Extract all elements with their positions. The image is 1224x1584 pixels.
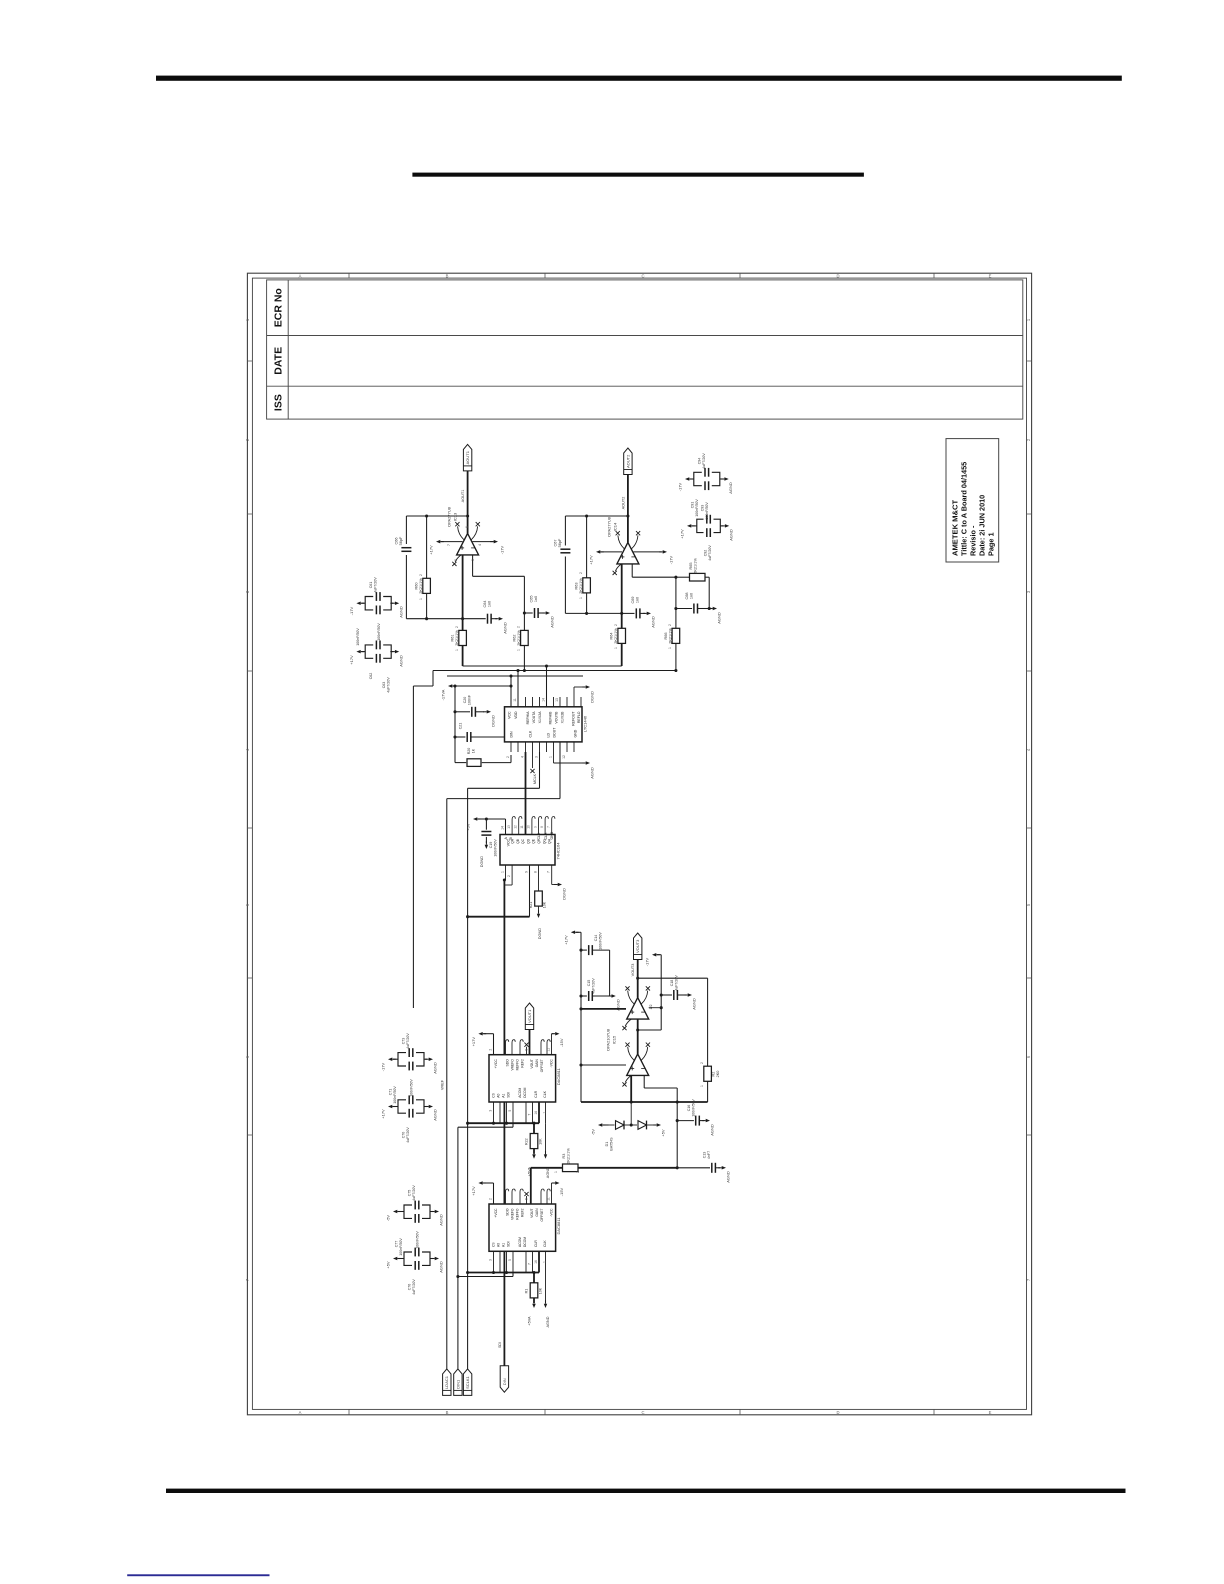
svg-text:2: 2	[454, 559, 458, 561]
svg-text:DCOM: DCOM	[523, 1087, 527, 1097]
power +5VA arrow IC18	[532, 1154, 536, 1158]
svg-text:AGND: AGND	[728, 482, 733, 494]
svg-text:10: 10	[527, 825, 531, 829]
svg-text:-17V: -17V	[349, 606, 354, 615]
svg-text:2K21/1%: 2K21/1%	[567, 1148, 571, 1164]
svg-text:REFFO: REFFO	[516, 1059, 520, 1071]
svg-text:1: 1	[548, 756, 552, 758]
svg-text:GND: GND	[574, 729, 578, 737]
svg-text:SDI: SDI	[498, 1342, 502, 1348]
power +17V arrow IC19	[478, 1181, 482, 1185]
wire DAC data rail IC18	[458, 1126, 513, 1128]
svg-text:VCC: VCC	[508, 711, 512, 719]
svg-text:OPA2107U8: OPA2107U8	[606, 1028, 611, 1051]
svg-text:9: 9	[533, 826, 537, 828]
ground AGND arrow C74 group	[430, 1211, 433, 1213]
power -17V pin IC13	[473, 541, 494, 543]
svg-text:2: 2	[419, 574, 423, 576]
svg-text:R64: R64	[610, 633, 614, 640]
wire feedback bottom rail IC14	[565, 612, 621, 614]
svg-text:VREF: VREF	[441, 1079, 445, 1090]
svg-text:AGND: AGND	[399, 655, 404, 667]
power +17V arrow IC15	[571, 931, 575, 935]
svg-text:C: C	[641, 274, 644, 279]
net flag VOUT3	[634, 933, 642, 960]
svg-text:CS: CS	[492, 1092, 496, 1097]
ground AGND arrow IC19	[545, 1273, 547, 1304]
wire bus SCLK vertical	[467, 788, 469, 1369]
svg-text:100nF/50V: 100nF/50V	[410, 1079, 414, 1097]
resistor R1 10K	[533, 1273, 535, 1283]
svg-text:AGND: AGND	[729, 529, 734, 541]
svg-text:ACOM: ACOM	[518, 1088, 522, 1098]
svg-text:CLR: CLR	[534, 1090, 538, 1097]
wire sync horizontal	[447, 798, 560, 800]
wire CLR stub IC18	[538, 1102, 540, 1123]
svg-text:ACOM: ACOM	[518, 1237, 522, 1247]
svg-text:D1: D1	[605, 1142, 609, 1147]
svg-text:E: E	[989, 274, 992, 279]
wire feedback left leg	[405, 516, 407, 544]
svg-text:B: B	[446, 1410, 449, 1415]
svg-text:2: 2	[507, 875, 511, 877]
wire non-inverting input IC13	[472, 555, 474, 576]
revision table frame	[267, 280, 1023, 419]
shift register IC box IC16	[500, 835, 555, 866]
power +17V pin IC13	[441, 541, 463, 543]
svg-text:4uF7/20V: 4uF7/20V	[675, 975, 679, 991]
DAC NC hooks IC18	[506, 1040, 509, 1055]
svg-text:R65: R65	[689, 563, 693, 570]
wire IC15A left supply	[581, 1008, 626, 1010]
capacitors C62/C63 group	[365, 645, 391, 658]
svg-text:14: 14	[500, 826, 504, 830]
svg-text:GAIN: GAIN	[535, 1208, 539, 1217]
power +17V arrow C70 group	[388, 1105, 392, 1108]
svg-text:+5VA: +5VA	[528, 1316, 532, 1326]
wire -17V rail IC15	[660, 955, 662, 1030]
net flag LDAC1	[443, 1369, 451, 1396]
ground AGND arrow C91 group	[720, 478, 723, 480]
wire AOUT1 to op-amp output	[467, 471, 469, 534]
svg-text:1/2: 1/2	[649, 1005, 653, 1010]
op-amp IC13	[457, 533, 479, 555]
resistor R61 input	[462, 619, 464, 631]
title underline	[412, 173, 864, 177]
svg-text:1n0: 1n0	[636, 597, 640, 603]
wire bus left drop	[432, 671, 434, 687]
capacitor C17 clamp	[676, 1102, 678, 1121]
svg-text:A: A	[299, 1410, 302, 1415]
page bottom rule	[166, 1489, 1126, 1493]
svg-text:C69: C69	[631, 597, 635, 604]
wire feedback to R2	[638, 977, 708, 979]
svg-text:VOUT3: VOUT3	[635, 939, 640, 953]
wire VOUT1 to VOUT pin	[529, 1030, 531, 1055]
svg-text:1: 1	[419, 598, 423, 600]
svg-text:2: 2	[455, 626, 459, 628]
svg-text:CLK: CLK	[543, 1090, 547, 1097]
svg-text:DAC8811: DAC8811	[556, 1067, 561, 1085]
svg-text:DAC8811: DAC8811	[556, 1217, 561, 1235]
svg-text:CLR: CLR	[534, 1240, 538, 1247]
svg-text:2K21/1%: 2K21/1%	[669, 628, 673, 644]
power +17V arrow C62 group	[356, 650, 360, 654]
svg-text:C14: C14	[594, 935, 598, 942]
ground AGND arrow C70 group	[424, 1106, 427, 1108]
svg-text:VOUT3: VOUT3	[631, 964, 635, 977]
capacitor C21 ref	[455, 736, 465, 738]
wire DAC data rail IC19	[458, 1276, 513, 1278]
svg-text:6: 6	[465, 526, 469, 528]
svg-text:X1/X2B: X1/X2B	[561, 711, 565, 724]
svg-text:4uF7/20V: 4uF7/20V	[412, 1279, 416, 1295]
svg-text:74HC164: 74HC164	[556, 842, 561, 860]
svg-text:AGND: AGND	[651, 616, 656, 628]
svg-text:C93: C93	[701, 505, 705, 512]
svg-text:+5V: +5V	[386, 1261, 391, 1269]
svg-text:REFHIB: REFHIB	[549, 711, 553, 725]
capacitor C66 feedback	[401, 548, 411, 552]
svg-text:REF2: REF2	[521, 1208, 525, 1217]
svg-text:ECR No: ECR No	[273, 288, 285, 327]
svg-text:LD: LD	[547, 733, 551, 738]
ground AGND arrow C92 group	[720, 525, 723, 527]
wire clamp node riser	[630, 1102, 632, 1125]
svg-text:AGND: AGND	[439, 1261, 444, 1273]
wire DAC control rail IC19	[468, 1272, 539, 1274]
svg-text:4uF7/20V: 4uF7/20V	[406, 1127, 410, 1143]
svg-text:+VCC: +VCC	[494, 1208, 498, 1218]
svg-text:1: 1	[579, 597, 583, 599]
capacitors C76/C77 group	[404, 1252, 430, 1265]
svg-text:AGND: AGND	[550, 616, 555, 628]
svg-text:2K21/1%: 2K21/1%	[455, 630, 459, 646]
svg-text:9: 9	[524, 1049, 528, 1051]
svg-text:C61: C61	[369, 582, 373, 589]
net flag SDI pointed	[500, 1366, 508, 1393]
diode D1 second half	[638, 1121, 647, 1130]
svg-text:11: 11	[546, 1197, 550, 1201]
svg-text:2: 2	[700, 1062, 704, 1064]
svg-text:VOUTA: VOUTA	[532, 711, 536, 723]
svg-text:10K: 10K	[539, 1138, 543, 1145]
svg-text:DGND: DGND	[491, 715, 496, 727]
power -15V arrow IC18	[551, 1034, 553, 1055]
svg-text:AMETEK M&CT: AMETEK M&CT	[951, 500, 960, 556]
power +5V arrow clamp	[647, 1124, 655, 1126]
svg-text:3: 3	[471, 559, 475, 561]
svg-text:+17V: +17V	[471, 1186, 476, 1196]
wire non-inverting input IC14	[631, 564, 633, 577]
svg-text:13: 13	[555, 698, 559, 702]
svg-text:C71: C71	[389, 1089, 393, 1096]
wire bus DIN vertical	[457, 1127, 459, 1369]
svg-text:C77: C77	[395, 1241, 399, 1248]
wire feedback top rail IC14	[565, 515, 628, 517]
svg-text:C: C	[641, 1410, 644, 1415]
svg-text:+17V: +17V	[589, 555, 594, 565]
svg-text:C68: C68	[685, 593, 689, 600]
svg-text:VOUT: VOUT	[530, 1209, 534, 1218]
power +5V arrow shift register	[473, 817, 477, 821]
svg-text:MCLK: MCLK	[533, 773, 537, 784]
svg-text:2: 2	[576, 1171, 580, 1173]
svg-text:3: 3	[488, 1259, 492, 1261]
power -5V arrow C74 group	[393, 1210, 397, 1213]
net flag VOUT1	[525, 1003, 533, 1030]
wire branch to -17V rail	[638, 1029, 662, 1031]
capacitor C15 supply	[581, 995, 587, 997]
svg-text:1: 1	[700, 1085, 704, 1087]
svg-text:C64: C64	[483, 601, 487, 608]
svg-text:2K21/1%: 2K21/1%	[579, 578, 583, 594]
svg-text:-17V: -17V	[381, 1062, 386, 1071]
svg-text:+17V: +17V	[381, 1109, 386, 1119]
svg-text:-15V: -15V	[559, 1038, 564, 1047]
svg-text:2: 2	[668, 624, 672, 626]
svg-text:DIN1: DIN1	[455, 1379, 460, 1389]
ground AGND arrow C76 group	[430, 1258, 433, 1260]
svg-text:-5V: -5V	[591, 1129, 596, 1136]
svg-text:C19: C19	[489, 842, 493, 849]
ground AGND arrow C72 group	[424, 1058, 427, 1060]
wire VOUT2 to resistor R3	[531, 1167, 563, 1169]
svg-text:C70: C70	[402, 1132, 406, 1139]
wire feedback top rail IC13	[406, 515, 467, 517]
svg-text:CLK: CLK	[529, 730, 533, 737]
capacitor C14 supply	[581, 949, 587, 951]
DAC bottom pin stubs IC19	[493, 1251, 495, 1272]
svg-text:R2: R2	[712, 1072, 716, 1077]
svg-text:R1: R1	[525, 1289, 529, 1294]
wire AOUT2 to op-amp output	[627, 475, 629, 543]
svg-text:1K: 1K	[472, 748, 476, 753]
svg-text:AGND: AGND	[439, 1214, 444, 1226]
svg-text:2: 2	[488, 1049, 492, 1051]
wire feedback left leg IC14	[564, 516, 566, 546]
svg-text:AOUT1: AOUT1	[465, 450, 470, 464]
wire IC15B inverting input	[630, 1075, 632, 1102]
svg-text:C16: C16	[687, 1105, 691, 1112]
page top rule	[156, 76, 1122, 81]
svg-text:CS: CS	[492, 1242, 496, 1247]
svg-text:REF2: REF2	[521, 1059, 525, 1068]
svg-text:+17V: +17V	[429, 545, 434, 555]
wire bus VOUTB	[447, 675, 583, 677]
svg-text:B: B	[446, 274, 449, 279]
svg-text:11: 11	[513, 698, 517, 702]
svg-text:AOUT2: AOUT2	[625, 454, 630, 468]
wire VOUT3 to output	[637, 960, 639, 998]
svg-text:7: 7	[527, 1263, 531, 1265]
svg-text:DGND: DGND	[538, 928, 542, 939]
svg-text:A1: A1	[502, 1243, 506, 1247]
wire ref LD down	[559, 742, 561, 799]
svg-text:DOUT: DOUT	[553, 727, 557, 738]
svg-text:4uF7/20V: 4uF7/20V	[406, 1033, 410, 1049]
svg-text:2K0: 2K0	[716, 1071, 720, 1078]
op-amp IC15 B	[627, 1054, 649, 1076]
op-amp IC15 A	[627, 998, 649, 1020]
svg-text:A: A	[299, 274, 302, 279]
power -17V arrow C72 group	[388, 1058, 392, 1062]
svg-text:IC14: IC14	[613, 522, 618, 531]
svg-text:4nF7: 4nF7	[707, 1151, 711, 1159]
wire bus B vertical	[503, 880, 505, 1380]
wire inverting input IC14	[621, 564, 623, 614]
svg-text:4uF7/20V: 4uF7/20V	[708, 545, 712, 561]
reference IC bottom pin stubs	[510, 742, 512, 752]
svg-text:-VCC: -VCC	[550, 1208, 554, 1217]
svg-text:1: 1	[614, 647, 618, 649]
svg-text:C92: C92	[704, 550, 708, 557]
svg-text:16: 16	[534, 1111, 538, 1115]
svg-text:A0: A0	[497, 1243, 501, 1247]
svg-text:C18: C18	[670, 980, 674, 987]
power -17VA arrow	[448, 684, 452, 688]
svg-text:DIN: DIN	[502, 1378, 507, 1385]
svg-text:4uF7/20V: 4uF7/20V	[374, 577, 378, 593]
svg-text:AOUT2: AOUT2	[621, 497, 625, 510]
resistor R22 10K	[533, 1123, 535, 1133]
svg-text:DGND: DGND	[480, 856, 484, 867]
svg-text:C15: C15	[587, 980, 591, 987]
svg-text:2: 2	[488, 1198, 492, 1200]
wire bus drops to reference IC	[517, 671, 519, 707]
svg-text:AGND: AGND	[710, 1124, 715, 1136]
svg-text:7: 7	[527, 1114, 531, 1116]
wire IC15B left supply	[581, 1064, 626, 1066]
svg-text:C20: C20	[463, 697, 467, 704]
wire +5V to VCC pin	[486, 818, 505, 820]
svg-text:100nF: 100nF	[468, 694, 472, 705]
svg-text:AGND: AGND	[726, 1171, 731, 1183]
DAC IC box IC19	[489, 1204, 556, 1251]
svg-text:+VCC: +VCC	[494, 1059, 498, 1069]
svg-text:1: 1	[455, 649, 459, 651]
svg-text:OFFSET: OFFSET	[540, 1059, 544, 1072]
svg-text:+17V: +17V	[680, 529, 685, 539]
svg-text:-17VA: -17VA	[441, 689, 446, 700]
svg-text:100nF/50V: 100nF/50V	[494, 839, 498, 857]
svg-text:R22: R22	[525, 1138, 529, 1145]
svg-text:7: 7	[547, 871, 551, 873]
svg-text:Page 1: Page 1	[987, 532, 996, 556]
reference IC NC pin	[532, 752, 534, 768]
wire CLK stub IC18	[545, 1102, 547, 1123]
net flag AOUT2	[624, 448, 632, 475]
wire bus AGND rail	[433, 670, 676, 672]
ground AGND arrow C62 group	[390, 651, 393, 653]
ground AGND arrow IC18	[545, 1123, 547, 1154]
svg-text:AGND: AGND	[433, 1062, 438, 1074]
svg-text:-17V: -17V	[645, 957, 650, 966]
svg-text:-VCC: -VCC	[550, 1059, 554, 1068]
svg-text:C94: C94	[698, 458, 702, 465]
svg-text:SDO: SDO	[506, 1208, 510, 1216]
svg-text:100nF/50V: 100nF/50V	[399, 1238, 403, 1256]
svg-text:GAIN: GAIN	[535, 1059, 539, 1068]
svg-text:100nF/50V: 100nF/50V	[416, 1231, 420, 1249]
svg-text:1: 1	[500, 871, 504, 873]
wire CLR stub IC19	[538, 1251, 540, 1272]
wire IC15B non-inverting input	[643, 1075, 645, 1088]
svg-text:13: 13	[507, 825, 511, 829]
svg-text:56pF: 56pF	[399, 536, 403, 545]
svg-text:+17V: +17V	[349, 655, 354, 665]
svg-text:C21: C21	[459, 723, 463, 730]
svg-text:C67: C67	[554, 540, 558, 547]
svg-text:-5V: -5V	[386, 1215, 391, 1222]
svg-text:CLR: CLR	[544, 832, 548, 839]
svg-text:QC: QC	[521, 838, 525, 844]
wire +17V rail IC15	[580, 932, 582, 1065]
resistor R21 on CLK	[538, 865, 540, 891]
svg-text:7: 7	[447, 544, 451, 546]
capacitor C19 shift register	[485, 819, 487, 830]
svg-text:4uF7/20V: 4uF7/20V	[387, 677, 391, 693]
svg-text:3: 3	[534, 756, 538, 758]
svg-text:+5V: +5V	[466, 823, 471, 831]
power +5V arrow C76 group	[393, 1257, 397, 1260]
svg-text:2: 2	[614, 624, 618, 626]
reference IC top pin stubs	[510, 697, 512, 707]
svg-text:R63: R63	[575, 583, 579, 590]
net flag DIN1	[454, 1369, 462, 1396]
svg-text:A1: A1	[502, 1094, 506, 1098]
ground AGND arrow C15	[612, 994, 616, 998]
svg-text:IC15: IC15	[612, 1035, 617, 1044]
svg-text:Revisio -: Revisio -	[969, 525, 978, 556]
capacitor C64 to AGND	[488, 614, 492, 624]
svg-text:1: 1	[542, 1112, 546, 1114]
svg-text:VOUT: VOUT	[530, 1059, 534, 1068]
svg-text:REFHIA: REFHIA	[526, 711, 530, 725]
wire gain node drop IC14	[675, 577, 677, 608]
wire rail left riser	[580, 1065, 582, 1102]
sheet inner border	[252, 278, 1026, 1409]
svg-text:ISS: ISS	[273, 394, 285, 411]
net flag SCLK1	[463, 1369, 471, 1396]
svg-text:-17V: -17V	[669, 555, 674, 564]
border zone letters	[245, 274, 1031, 1416]
svg-text:1: 1	[542, 1261, 546, 1263]
svg-text:11: 11	[520, 825, 524, 829]
svg-text:R66: R66	[664, 633, 668, 640]
svg-text:100nF/50V: 100nF/50V	[692, 1099, 696, 1117]
resistor R65 gain	[690, 573, 706, 581]
svg-text:QB: QB	[516, 838, 520, 844]
svg-text:C65: C65	[530, 596, 534, 603]
svg-text:REFOUT: REFOUT	[572, 711, 576, 726]
svg-text:14: 14	[541, 698, 545, 702]
svg-text:-17V: -17V	[678, 482, 683, 491]
capacitor C68 to AGND	[676, 608, 692, 610]
wire CLK stub IC19	[545, 1251, 547, 1272]
capacitors C74/C75 group	[404, 1205, 430, 1218]
svg-text:SDO: SDO	[506, 1059, 510, 1067]
svg-text:3: 3	[488, 1110, 492, 1112]
wire inverting input IC13	[462, 555, 464, 619]
svg-text:-15V: -15V	[559, 1187, 564, 1196]
svg-text:1: 1	[516, 649, 520, 651]
svg-text:C13: C13	[703, 1152, 707, 1159]
wire -17VA rail	[455, 685, 511, 687]
svg-text:100nF/50V: 100nF/50V	[695, 499, 699, 517]
svg-text:1n0: 1n0	[690, 593, 694, 599]
capacitors C72/C73 group	[398, 1053, 424, 1066]
